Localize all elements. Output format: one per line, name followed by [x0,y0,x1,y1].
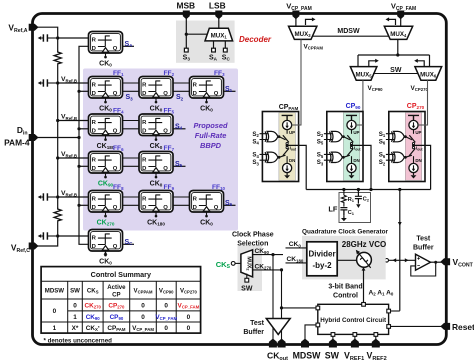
svg-text:S2: S2 [252,131,259,138]
terminal square SC [223,48,227,52]
hybrid control circuit box [318,304,389,334]
svg-text:VCP270: VCP270 [180,288,198,295]
mux MUX5 [350,67,377,81]
wire MDSW select line [313,35,390,37]
pin VREF2 [372,339,380,348]
svg-text:CPPAM: CPPAM [107,325,126,332]
wire VRef,A to ladder [35,27,58,51]
svg-text:CK90: CK90 [86,314,101,321]
svg-text:VRef,C: VRef,C [11,243,30,255]
flip-flop FF1 [89,77,123,104]
svg-text:VCPPAM: VCPPAM [134,288,153,295]
svg-text:VRef,B: VRef,B [61,76,77,83]
svg-text:CK270: CK270 [255,263,272,270]
svg-text:MUX5: MUX5 [355,71,372,78]
quadrature clock generator gray box [302,236,386,280]
select arrow MUX3 [306,17,316,25]
wire row1 Q-D FF1-FF2 [123,90,140,92]
svg-text:Buffer: Buffer [243,329,264,336]
svg-text:CK0: CK0 [289,241,302,248]
loop filter LF box [339,193,371,223]
wire SW select line [373,73,419,75]
flip-flop FF4 [89,114,123,141]
sampler SA [89,32,123,59]
pin SW [329,339,337,348]
wire S1 output [224,90,236,92]
pin LSB [215,11,222,20]
svg-text:0: 0 [141,303,145,310]
svg-text:CK0: CK0 [99,259,112,266]
mux MUX1 [205,28,233,41]
wire CP_PAM Iout to loop filter [287,145,306,189]
mux MUX2 [241,250,253,277]
svg-text:CKS: CKS [87,288,99,295]
flip-flop FF5 [139,114,173,141]
svg-text:S4: S4 [252,152,259,159]
svg-text:LF: LF [328,205,338,214]
svg-text:0: 0 [187,325,191,332]
wire VRef,A tap to SA R [58,37,89,39]
svg-text:CP: CP [112,292,120,299]
wire row4 R line FF9-FF10 [173,196,190,198]
table row 3 [53,325,191,332]
wire row4 Q-D FF8-FF9 [123,204,140,206]
wire Din bus to FF4 D [79,128,89,130]
xor U3 CP90 [324,131,345,141]
svg-text:Buffer: Buffer [413,244,434,251]
svg-text:S6: S6 [379,139,386,146]
svg-text:Control Summary: Control Summary [91,270,151,279]
svg-text:S1: S1 [379,131,386,138]
wire VCONT tee to VCO and buffer [372,259,416,261]
svg-text:MUX3: MUX3 [294,31,311,38]
wire SA output [123,45,135,47]
resistor R1 [343,190,345,196]
wire VRef,C tap to SC R [58,235,89,237]
wire SW pin to HCC [332,336,334,341]
wire CK90 down to CKout buffer [272,255,274,342]
pin Reset [440,323,450,330]
wire VRef,B tap to FF6 R [58,157,89,159]
wire HCC to VCONT net [391,310,400,312]
wire VRef,B tap to FF8 R [58,196,89,198]
wire loop filter node line [306,189,430,191]
wire divider to VCO [337,259,356,261]
wire row4 Q-D FF9-FF10 [173,204,190,206]
terminal square SA [212,48,216,52]
pin CKout a [269,339,277,348]
svg-text:CK90: CK90 [255,248,270,255]
svg-text:X*: X* [72,325,79,332]
wire xor outputs CP90 [343,137,350,158]
svg-text:SW: SW [325,350,340,360]
svg-text:VCP90: VCP90 [159,288,174,295]
mux MUX4 [384,26,412,39]
svg-text:* denotes unconcerned: * denotes unconcerned [44,338,113,345]
svg-text:Active: Active [107,284,126,291]
svg-text:Control: Control [333,293,358,300]
pin VRef,C [29,243,39,250]
svg-text:BBPD: BBPD [200,141,222,150]
svg-text:1: 1 [53,325,57,332]
svg-text:CKX*: CKX* [86,325,100,332]
svg-text:MUX1: MUX1 [211,32,228,39]
svg-text:CKS: CKS [216,260,231,270]
svg-text:VCPPAM: VCPPAM [304,44,324,51]
flip-flop FF8 [89,191,123,218]
svg-text:SW: SW [70,288,80,295]
wire MSB branch to MUX1 select [186,33,207,35]
flip-flop FF7 [139,152,173,179]
svg-text:0: 0 [53,308,57,315]
wire VCP_PAM to MUX3 [295,17,297,26]
svg-text:CP90: CP90 [346,103,361,110]
svg-text:0: 0 [164,303,168,310]
pin CKout b [278,339,286,348]
pin VREF1 [351,339,359,348]
wire CK180 output [286,262,307,264]
svg-text:0: 0 [141,314,145,321]
wire buffer output to VCONT pin [431,261,444,263]
wire row1 Q-D FF2-FF3 [173,90,190,92]
svg-text:VRef,B: VRef,B [61,151,77,158]
wire CK0 output [286,247,307,249]
svg-text:CKout: CKout [267,350,288,360]
svg-text:CPPAM: CPPAM [279,104,299,111]
xor U4 CP90 [324,152,345,162]
svg-text:VREF1: VREF1 [344,350,364,360]
svg-text:Clock Phase: Clock Phase [232,231,274,238]
pin MDSW [301,339,309,348]
resistor ladder R bottom [54,208,61,222]
svg-text:VCP_PAM: VCP_PAM [286,2,312,12]
svg-text:VCP_FAM: VCP_FAM [391,2,416,12]
Din bus junction dots [77,90,80,207]
clock line junction dots [271,253,283,310]
table header row [45,284,198,299]
wire row3 R line [123,157,140,159]
select arrow MUX5 [369,59,379,67]
wire VRef,B tap to FF1 R [58,82,89,84]
divider block [307,242,337,276]
svg-text:Test: Test [416,235,431,242]
svg-text:S4: S4 [252,139,259,146]
pin VCONT [440,258,450,265]
wire Din pin to bus [35,137,79,139]
svg-text:MDSW: MDSW [337,28,360,35]
wire CK270 down to CKout buffer [281,270,283,342]
select arrow MUX4 [386,17,396,25]
svg-text:Din: Din [17,125,28,137]
wire MUX1 to SA terminal [213,41,215,48]
wire VRef,B tap to FF4 R [58,120,89,122]
charge pump CP270 box [389,112,425,182]
svg-text:28GHz VCO: 28GHz VCO [342,240,386,249]
svg-text:R1: R1 [348,197,355,203]
svg-text:VCP_FAM: VCP_FAM [178,303,200,310]
wire row3 Q-D [123,165,140,167]
node line junction dots [342,188,401,191]
wire HCC to clock line [282,307,318,309]
svg-text:Divider: Divider [308,250,335,259]
svg-text:Hybrid Control Circuit: Hybrid Control Circuit [320,317,387,324]
svg-text:SW: SW [241,285,253,292]
svg-text:Proposed: Proposed [193,121,228,130]
svg-text:C1: C1 [348,210,355,216]
svg-text:VCP_PAM: VCP_PAM [132,325,154,332]
decoder gray box [176,21,235,63]
pin VRef,A [29,24,39,31]
HCC port squares [316,303,391,337]
wire row2 Q-D [123,128,140,130]
table row 2 [73,314,190,321]
wire S4 output [173,128,186,130]
decoupling cap row SA [38,34,58,41]
svg-text:3-bit Band: 3-bit Band [328,284,362,291]
pin Din PAM-4 [29,134,39,141]
table row 1 [53,303,200,316]
mux MUX6 [415,67,442,81]
wire CK270 into MUX2 [253,269,283,271]
decoupling cap row FF1 [38,79,58,86]
svg-text:SA: SA [125,41,134,48]
svg-text:Decoder: Decoder [239,35,272,44]
svg-text:Quadrature Clock Generator: Quadrature Clock Generator [302,229,388,236]
wire Din bus to FF6 D [79,165,89,167]
svg-text:S5: S5 [317,139,324,146]
decoupling cap row FF8 [38,193,58,200]
xor U2 CP_PAM [260,152,281,162]
svg-text:CP270: CP270 [108,303,125,310]
svg-text:MDSW: MDSW [45,288,65,295]
svg-text:0: 0 [73,303,77,310]
svg-text:CP270: CP270 [407,103,425,110]
svg-text:VRef,A: VRef,A [8,22,27,34]
wire xor outputs CP_PAM [279,137,286,158]
svg-text:CK270: CK270 [84,303,101,310]
svg-text:CK0: CK0 [99,61,112,68]
svg-text:LSB: LSB [209,1,226,11]
svg-text:SC: SC [125,239,134,246]
svg-text:S6: S6 [379,152,386,159]
wire CP270 Iout to loop filter [414,145,431,189]
svg-text:VREF2: VREF2 [367,350,387,360]
wire MUX1 to SC terminal [224,41,226,48]
ladder junction dots [56,36,59,237]
pin MSB [183,11,190,20]
svg-text:-by-2: -by-2 [312,261,332,270]
wire VREF2 pin to HCC [375,336,377,341]
svg-text:MDSW: MDSW [293,350,322,360]
wire S5 output [173,165,186,167]
wire CP90 Iout to loop filter [352,145,372,189]
flip-flop FF2 [139,77,173,104]
wire row4 R line FF8-FF9 [123,196,140,198]
wire MUX6 output to CP270 [419,80,428,125]
BBPD purple region [83,69,238,231]
mux MUX3 [289,26,317,39]
svg-text:A2 A1 A0: A2 A1 A0 [369,290,394,297]
svg-text:VCP_FAM: VCP_FAM [155,314,177,321]
svg-text:S2: S2 [317,131,324,138]
wire 3-bit band control to VCO [363,269,365,303]
svg-text:MUX4: MUX4 [390,31,407,38]
wire row1 R line FF1-FF2 [123,82,140,84]
wire row1 R line FF2-FF3 [173,82,190,84]
wire buffer feedback [411,262,436,276]
svg-text:Full-Rate: Full-Rate [195,131,227,140]
svg-text:S3: S3 [252,159,259,166]
svg-text:VRef,B: VRef,B [61,190,77,197]
sampler SC [89,230,123,257]
svg-text:VCONT: VCONT [453,257,474,269]
svg-text:0: 0 [187,314,191,321]
svg-text:Selection: Selection [237,240,268,247]
wire Din vertical bus [79,46,89,244]
wire MUX5 output to CP90 [357,80,363,125]
svg-text:SW: SW [390,67,402,74]
wire HCC to Reset [391,325,444,327]
wire S6 output [224,204,236,206]
clock phase selection gray box [238,245,263,291]
svg-text:S5: S5 [317,152,324,159]
wire LSB to MUX1 [218,17,220,28]
svg-text:S2: S2 [379,159,386,166]
flip-flop FF3 [190,77,224,104]
wire MDSW pin to HCC [305,325,316,342]
svg-text:CP90: CP90 [110,314,124,321]
charge pump CP_PAM box [262,112,298,182]
wire Din bus to FF8 D [79,204,89,206]
svg-text:MSB: MSB [176,1,195,11]
xor U1 CP_PAM [260,131,281,141]
svg-text:Reset: Reset [452,322,474,332]
wire xor outputs CP270 [405,137,412,158]
capacitor C1 [340,208,347,216]
wire ladder to VRef,C [35,222,58,246]
svg-text:Test: Test [250,320,265,327]
pin VCP_FAM [397,11,404,20]
wire Din bus to FF1 D [79,90,89,92]
xor U5 CP270 [386,131,407,141]
wire CP270 bias entry [418,124,427,126]
wire CP_PAM bias entry [292,124,301,126]
wire MUX2 output CKS [235,262,241,264]
wire CP90 bias entry [356,124,363,126]
wire ladder mid [57,65,59,208]
wire VCP_FAM to MUX4 [400,17,402,26]
flip-flop FF6 [89,152,123,179]
terminal square S3 [184,48,188,52]
svg-text:C2: C2 [363,197,370,203]
charge pump CP90 box [327,112,363,182]
flip-flop FF10 [190,191,224,218]
select arrow MUX6 [414,59,424,67]
svg-text:PAM-4: PAM-4 [4,138,30,148]
decoupling cap row SC [38,232,58,239]
svg-text:S3: S3 [317,159,324,166]
wire SC output [123,243,135,245]
svg-text:MUX6: MUX6 [420,71,437,78]
flip-flop FF9 [139,191,173,218]
wire MUX4 output split [358,39,430,66]
wire MSB down to S3 [185,17,187,48]
wire CK90 into MUX2 [253,254,283,256]
control summary table [41,267,201,334]
svg-text:VCP270: VCP270 [411,85,429,92]
select SW terminal MUX2 [246,274,248,279]
pin VCP_PAM [292,11,299,20]
xor U6 CP270 [386,152,407,162]
svg-text:VRef,B: VRef,B [61,114,77,121]
wire row2 R line [123,120,140,122]
svg-text:1: 1 [73,314,77,321]
terminal circle VCO output [385,259,389,263]
wire VREF1 pin to HCC [354,336,356,341]
wire MUX3 output to CP_PAM [292,39,301,125]
capacitor C2 [355,190,362,204]
test buffer CKout [266,319,290,335]
svg-text:VCP90: VCP90 [368,85,384,92]
svg-text:0: 0 [164,325,168,332]
svg-text:CK180: CK180 [287,256,304,263]
wire VCONT net vertical [399,190,401,311]
resistor ladder R top [54,51,61,65]
